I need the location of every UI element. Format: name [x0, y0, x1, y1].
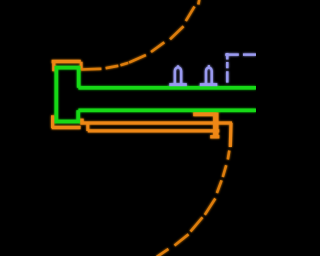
blue hidden line vertical (dashed): [226, 53, 229, 83]
arc dash b7: [157, 249, 169, 256]
arc dash t6: [170, 26, 184, 39]
green pipe lower wall line: [78, 108, 256, 112]
orange right bar foot: [210, 135, 219, 138]
orange dashed arc (top), drawn as dash segments of circle c=(90.6,-46.3) r=115.5: [81, 0, 199, 70]
arc dash b6: [175, 234, 189, 245]
arc dash b3: [217, 180, 222, 193]
arc dash t5: [151, 42, 164, 52]
arc dash b2: [223, 165, 226, 177]
blue clamp 2 base plate: [200, 83, 218, 86]
arc dash b1: [228, 151, 230, 160]
blue clamp 2 tip: [208, 65, 210, 67]
blue clamp 1 tip: [177, 65, 179, 67]
orange bump joining bottom bar to long line: [80, 119, 83, 125]
green flange C-outline: [56, 68, 78, 122]
orange solid descender from long line 1 into bottom arc: [229, 123, 233, 147]
orange dashed arc (bottom), c=(83.6,129.5) r=147: [157, 151, 230, 256]
orange flange top bar: [52, 60, 81, 63]
blue clamp 1 base plate: [169, 83, 187, 86]
orange long line 1 (upper): [81, 121, 233, 124]
arc dash t4: [129, 55, 146, 63]
arc dash b4: [205, 199, 216, 215]
blue hidden line horizontal (dashed): [225, 53, 256, 56]
orange flange bottom bar: [52, 126, 81, 129]
orange step down at flange top right: [80, 62, 83, 70]
arc dash b5: [191, 217, 203, 231]
arc dash t7: [186, 0, 200, 21]
arc dash t3: [120, 63, 128, 65]
orange flange top-left corner tick: [52, 60, 55, 71]
arc dash t2: [106, 66, 119, 68]
blue clamp 2 arch: [206, 68, 212, 85]
orange left-end join between long lines: [86, 123, 89, 131]
orange long line 2 (lower): [88, 129, 220, 132]
orange short segment A at right: [193, 112, 216, 116]
arc dash t1: [81, 68, 101, 71]
green pipe upper wall line: [78, 86, 256, 90]
blue clamp 1 arch: [175, 67, 181, 84]
orange flange bottom-left corner tick: [51, 115, 54, 128]
orange right vertical bar: [213, 113, 218, 136]
